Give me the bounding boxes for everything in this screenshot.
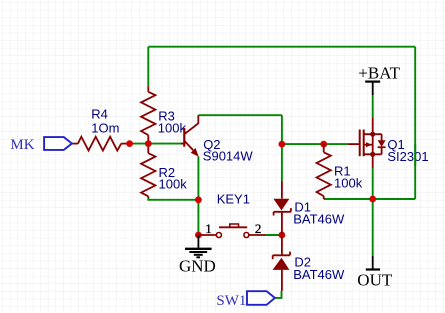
svg-text:S9014W: S9014W — [203, 149, 254, 164]
switch KEY1 pin2 wire — [249, 234, 265, 236]
junction dot R4-right — [126, 140, 133, 147]
wire collector node down to junction — [281, 115, 283, 144]
svg-text:BAT46W: BAT46W — [293, 267, 345, 282]
ground GND symbol — [185, 235, 212, 257]
transistor Q2 emitter arrow — [191, 148, 199, 157]
wire SW1 to D2 — [275, 291, 282, 298]
port SW1 flag — [247, 291, 275, 305]
resistor R1 — [317, 144, 331, 199]
wire Q1 drain from +BAT — [372, 95, 374, 118]
wire R2 bottom corner to emitter node — [148, 197, 198, 200]
junction dot collector-D1-gate — [279, 141, 286, 148]
transistor Q1 body diode arrow — [378, 140, 386, 147]
port OUT symbol — [366, 256, 380, 270]
svg-text:KEY1: KEY1 — [217, 192, 250, 207]
svg-text:+BAT: +BAT — [358, 64, 400, 83]
svg-text:2: 2 — [255, 221, 262, 236]
port MK flag — [44, 137, 72, 150]
svg-text:100k: 100k — [159, 177, 188, 192]
switch KEY1 pin2 circle — [244, 233, 249, 238]
wire net VCC left vertical to R3 — [147, 47, 149, 86]
wire collector to D1 node horizontal — [198, 114, 282, 116]
wire net OUT bottom horizontal — [324, 198, 416, 200]
wire KEY1 pin2 to D node — [265, 234, 282, 236]
transistor Q1 internal dot source — [370, 152, 375, 157]
svg-text:MK: MK — [10, 137, 34, 153]
resistor R2 — [141, 144, 155, 198]
svg-text:100k: 100k — [334, 175, 363, 190]
wire net VCC top horizontal — [148, 46, 415, 48]
svg-text:SW1: SW1 — [216, 293, 246, 309]
transistor Q2 — [181, 115, 198, 150]
resistor R3 — [141, 86, 155, 143]
switch KEY1 pin1 wire — [198, 234, 216, 236]
svg-text:100k: 100k — [158, 121, 187, 136]
svg-text:1Om: 1Om — [91, 121, 119, 136]
svg-text:SI2301: SI2301 — [387, 149, 428, 164]
svg-text:OUT: OUT — [357, 270, 393, 289]
junction dot KEY1-GND — [195, 232, 202, 239]
wire OUT node down to port — [372, 199, 374, 256]
diode D2 — [273, 235, 290, 291]
wire Q1 source down to OUT node — [372, 168, 374, 199]
junction dot R1 top — [320, 141, 327, 148]
switch KEY1 actuator bump — [230, 224, 239, 227]
junction dot base node — [145, 140, 152, 147]
wire base node MK-R3-R2-Q2 — [130, 143, 183, 145]
junction dot emitter-R2 — [195, 196, 202, 203]
transistor Q1 source arrow — [366, 142, 372, 147]
wire D1 anode from junction — [281, 144, 283, 181]
wire gate node to Q1 — [282, 143, 348, 145]
svg-text:1: 1 — [205, 221, 212, 236]
transistor Q1 MOSFET — [348, 118, 386, 168]
wire emitter vertical — [197, 157, 199, 236]
wire net VCC right vertical — [414, 47, 416, 199]
resistor R4 — [72, 137, 127, 151]
junction dot D1-KEY1 — [279, 232, 286, 239]
junction dot OUT node — [369, 196, 376, 203]
svg-text:GND: GND — [179, 257, 216, 276]
svg-text:R4: R4 — [91, 107, 108, 122]
transistor Q1 internal dot drain — [370, 132, 375, 137]
power +BAT symbol — [365, 82, 380, 96]
svg-text:BAT46W: BAT46W — [293, 212, 345, 227]
switch KEY1 actuator bar — [219, 226, 247, 228]
diode D1 — [273, 181, 291, 235]
wire net VCC right vertical overlay — [414, 144, 416, 166]
switch KEY1 pin1 circle — [216, 233, 221, 238]
